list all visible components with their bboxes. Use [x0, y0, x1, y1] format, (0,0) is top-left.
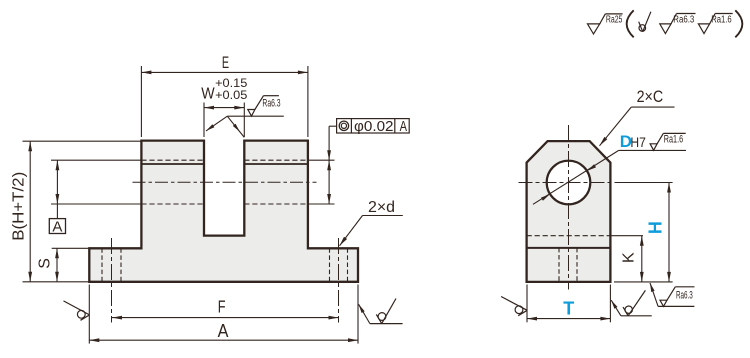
- 2xd leader: [340, 216, 403, 246]
- svg-text:S: S: [37, 258, 54, 269]
- front view body outline: [89, 141, 358, 282]
- hole D diameter leader: [533, 150, 686, 204]
- svg-text:K: K: [620, 252, 637, 263]
- dimension T extension lines: [527, 285, 610, 323]
- dimension T line: [527, 317, 610, 321]
- svg-text:2×C: 2×C: [637, 88, 664, 106]
- surface symbol front right (no machining): [359, 299, 403, 324]
- dimension A line: [89, 338, 358, 342]
- svg-text:W: W: [201, 86, 215, 103]
- legend no-machining symbol: [639, 12, 651, 32]
- concentricity feature control frame: [337, 119, 410, 135]
- dimension A extension lines: [89, 285, 358, 344]
- label W: [201, 86, 215, 103]
- label B(H+T/2): [10, 172, 27, 241]
- hole D dimension line left: [56, 160, 60, 218]
- dimension S extension line: [52, 247, 90, 249]
- svg-text:A: A: [52, 219, 62, 236]
- dimension E line: [141, 71, 308, 75]
- surface symbol side left (no machining): [501, 297, 527, 316]
- legend surface finish Ra6.3: [660, 14, 696, 34]
- svg-text:φ0.02: φ0.02: [354, 119, 394, 135]
- side view body outline: [527, 141, 611, 282]
- svg-text:Ra25: Ra25: [606, 14, 623, 25]
- dimension K extension line: [610, 235, 643, 237]
- svg-text:H: H: [645, 221, 665, 234]
- svg-text:Ra1.6: Ra1.6: [664, 134, 683, 146]
- svg-text:T: T: [563, 299, 574, 319]
- label H: [645, 221, 665, 234]
- dimension K line: [640, 236, 644, 282]
- hole D hidden line top: [141, 159, 308, 161]
- svg-text:+0.05: +0.05: [215, 88, 248, 102]
- svg-text:F: F: [218, 297, 226, 317]
- side slot bottom hidden line: [527, 235, 611, 237]
- base hole left hidden lines: [102, 248, 121, 281]
- dimension H line: [667, 183, 671, 282]
- side hole D circle: [547, 161, 591, 205]
- legend surface finish Ra1.6: [698, 14, 732, 34]
- label T: [563, 299, 574, 319]
- label W tolerance +0.05: [215, 88, 248, 102]
- svg-text:Ra6.3: Ra6.3: [673, 14, 694, 25]
- base hole right hidden lines: [330, 248, 348, 281]
- svg-text:Ra1.6: Ra1.6: [711, 14, 732, 25]
- datum A box: [49, 219, 65, 236]
- surface finish Ra1.6 on hole: [650, 133, 686, 150]
- label A: [218, 320, 229, 341]
- surface finish Ra6.3 on slot flanks: [248, 96, 281, 116]
- dimension H extension lines: [614, 183, 673, 282]
- label E: [222, 53, 229, 72]
- svg-text:E: E: [222, 53, 229, 72]
- label K: [620, 252, 637, 263]
- label F: [218, 297, 226, 317]
- side horizontal centerline: [519, 182, 619, 184]
- hole D extension lines left: [51, 160, 141, 204]
- dimension W extension lines: [204, 103, 244, 138]
- surface symbol side middle (no machining): [611, 290, 652, 315]
- dimension F line: [112, 316, 339, 320]
- svg-text:A: A: [218, 320, 229, 341]
- svg-text:2×d: 2×d: [368, 199, 395, 216]
- label 2xd: [368, 199, 395, 216]
- legend open paren: [627, 10, 634, 37]
- hole D extension lines right: [308, 160, 335, 204]
- svg-text:Ra6.3: Ra6.3: [262, 98, 280, 110]
- dimension E extension lines: [141, 66, 308, 137]
- base hole right centerline: [338, 238, 340, 323]
- surface symbol front left (no machining): [64, 301, 90, 320]
- front horizontal centerline: [133, 181, 317, 183]
- dimension W line: [204, 106, 244, 110]
- slot flank leader: [206, 116, 284, 137]
- concentricity frame leader: [327, 126, 337, 160]
- svg-text:Ra6.3: Ra6.3: [676, 290, 693, 302]
- svg-text:A: A: [400, 119, 408, 135]
- svg-text:B(H+T/2): B(H+T/2): [10, 172, 27, 241]
- base hole left centerline: [111, 238, 113, 323]
- 2xC leader: [600, 107, 675, 146]
- front chamfer edge line left upright: [141, 163, 204, 165]
- hole D dimension line right: [327, 160, 331, 204]
- label S: [37, 258, 54, 269]
- dimension B line: [28, 141, 32, 282]
- side step line: [527, 247, 611, 249]
- label W tolerance +0.15: [215, 76, 248, 90]
- side base hole hidden lines: [559, 248, 577, 282]
- front chamfer edge line right upright: [244, 163, 308, 165]
- side vertical centerline: [568, 125, 570, 290]
- label D H7: [620, 132, 646, 151]
- legend close paren: [735, 10, 742, 37]
- surface finish Ra6.3 on bottom: [650, 283, 695, 307]
- svg-text:H7: H7: [630, 134, 646, 150]
- legend surface finish Ra25: [588, 14, 623, 34]
- dimension S line: [55, 248, 59, 281]
- hole D hidden line bottom: [141, 203, 308, 205]
- label 2xC: [637, 88, 664, 106]
- dimension B extension lines: [23, 141, 142, 282]
